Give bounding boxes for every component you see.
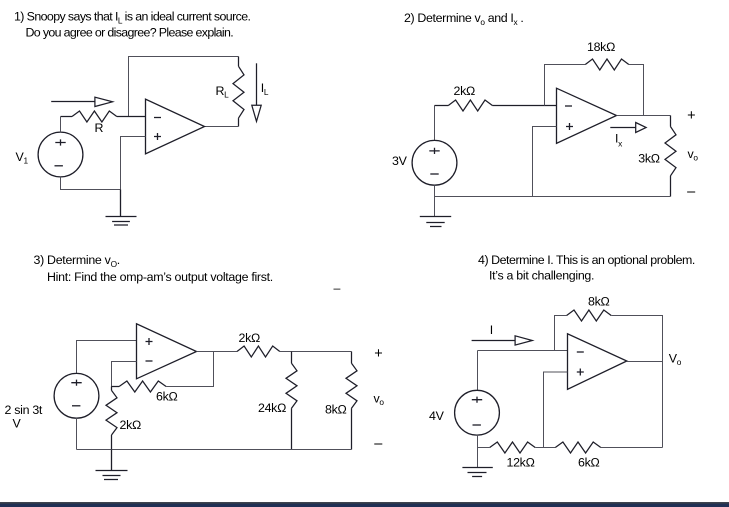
resistor R with leads xyxy=(61,111,146,122)
op-amp U3 plus input symbol xyxy=(146,338,153,345)
current arrow into R line xyxy=(51,101,95,103)
voltage source V1 xyxy=(38,132,83,177)
svg-text:4) Determine I. This is an opt: 4) Determine I. This is an optional prob… xyxy=(478,253,695,267)
current arrow Ix head xyxy=(636,123,646,133)
ground P4 xyxy=(462,468,492,477)
resistor 8k vertical xyxy=(346,352,357,450)
wire: P4 source bottom to ground xyxy=(477,435,479,468)
wire: P2 feedback right xyxy=(629,65,644,116)
wire: P4 input xyxy=(478,350,568,352)
svg-text:2) Determine vo and Ix .: 2) Determine vo and Ix . xyxy=(404,11,524,27)
svg-text:3kΩ: 3kΩ xyxy=(638,152,659,166)
svg-text:vo: vo xyxy=(374,392,385,408)
svg-text:3V: 3V xyxy=(392,154,408,168)
svg-text:+: + xyxy=(374,346,382,362)
resistor 6k P4 xyxy=(555,442,601,453)
wire: P4 rail right xyxy=(601,447,663,449)
op-amp U3 xyxy=(137,324,197,379)
wire: P2 plus input xyxy=(533,127,557,197)
source V1 plus sign xyxy=(55,139,65,145)
svg-text:6kΩ: 6kΩ xyxy=(156,390,177,404)
svg-text:+: + xyxy=(687,108,695,124)
svg-text:–: – xyxy=(374,436,383,452)
op-amp U2 minus input symbol xyxy=(565,105,572,107)
svg-text:RL: RL xyxy=(216,84,230,100)
svg-text:18kΩ: 18kΩ xyxy=(587,40,615,54)
svg-text:24kΩ: 24kΩ xyxy=(258,401,286,415)
wire: P2 bottom rail xyxy=(435,196,671,198)
current arrow IL head xyxy=(252,105,261,121)
resistor 2k P2 with leads xyxy=(435,100,557,111)
svg-text:2 sin 3t: 2 sin 3t xyxy=(5,403,43,417)
wire: V1 top to resistor R xyxy=(60,117,62,133)
svg-text:R: R xyxy=(95,121,104,135)
current arrow I line xyxy=(472,340,515,342)
svg-text:Do you agree or disagree? Plea: Do you agree or disagree? Please explain… xyxy=(26,26,234,40)
svg-text:2kΩ: 2kΩ xyxy=(454,84,475,98)
footer bar xyxy=(0,502,729,504)
svg-text:–: – xyxy=(334,281,341,295)
op-amp U1 minus input symbol xyxy=(154,117,161,119)
source 4V minus sign xyxy=(473,424,481,426)
resistor 2k horizontal P3 xyxy=(237,346,280,357)
svg-text:12kΩ: 12kΩ xyxy=(507,456,535,470)
op-amp U2 plus input symbol xyxy=(566,123,573,130)
voltage source 4V xyxy=(455,390,500,435)
svg-text:I: I xyxy=(490,323,493,337)
source 2sin3t minus sign xyxy=(72,405,80,407)
source 3V plus sign xyxy=(429,148,439,154)
source 2sin3t plus sign xyxy=(71,380,81,386)
op-amp U3 minus input symbol xyxy=(146,360,153,362)
ground P2 xyxy=(420,217,451,227)
resistor 2k vertical P3 xyxy=(106,387,117,450)
resistor 12k xyxy=(490,442,536,453)
resistor 8k P4 xyxy=(567,310,612,321)
op-amp U2 xyxy=(557,88,617,143)
op-amp U4 minus input symbol xyxy=(577,351,584,353)
svg-text:8kΩ: 8kΩ xyxy=(325,403,346,417)
source 4V plus sign xyxy=(472,397,482,403)
wire: P4 feedback top left xyxy=(555,316,567,351)
svg-text:Hint: Find the omp-am’s output: Hint: Find the omp-am’s output voltage f… xyxy=(47,270,273,284)
op-amp U4 xyxy=(568,334,627,390)
resistor 24k xyxy=(286,352,297,450)
wire: P4 output xyxy=(627,361,663,363)
current arrow into R head xyxy=(95,97,113,106)
wire: P1 plus input to ground node xyxy=(121,137,146,190)
op-amp U4 plus input symbol xyxy=(577,369,584,376)
svg-text:2kΩ: 2kΩ xyxy=(120,418,141,432)
wire: P3 output node to 8k top xyxy=(280,351,352,353)
resistor 3k with leads xyxy=(665,116,676,197)
svg-text:3) Determine vO.: 3) Determine vO. xyxy=(34,253,120,269)
wire: P3 source bottom xyxy=(76,418,78,450)
wire: P3 bottom rail xyxy=(77,449,352,451)
wire: V1 bottom rail xyxy=(61,177,121,190)
ground P1 xyxy=(106,190,137,226)
op-amp U1 xyxy=(146,99,205,154)
wire: P2 feedback left xyxy=(545,65,586,106)
svg-text:IL: IL xyxy=(261,81,269,97)
wire: P2 output xyxy=(617,115,671,117)
source 3V minus sign xyxy=(430,173,438,175)
wire: P1 op-amp output to RL bottom xyxy=(205,126,239,128)
svg-text:V: V xyxy=(13,417,22,431)
svg-text:vo: vo xyxy=(688,147,699,163)
svg-text:V1: V1 xyxy=(16,150,29,166)
wire: P1 feedback top xyxy=(129,57,239,117)
svg-text:Ix: Ix xyxy=(615,132,623,149)
resistor 18k xyxy=(585,59,629,70)
op-amp U1 plus input symbol xyxy=(154,133,161,140)
wire: P3 source top to plus input xyxy=(77,341,137,374)
wire: P4 rail middle xyxy=(535,447,555,449)
wire: P4 rail left lead xyxy=(478,447,490,449)
wire: P4 plus input xyxy=(544,372,568,448)
wire: P3 feedback right vertical xyxy=(166,352,213,387)
wire: P3 minus input down xyxy=(112,362,137,387)
current arrow Ix line xyxy=(610,127,635,129)
wire: P3 output xyxy=(197,351,238,353)
wire: 3V bottom to ground xyxy=(434,185,436,216)
svg-text:–: – xyxy=(687,184,696,200)
voltage source 2sin3t xyxy=(54,373,99,418)
resistor 6k with lead xyxy=(112,381,167,392)
svg-text:Vo: Vo xyxy=(669,352,682,368)
resistor RL xyxy=(233,57,244,127)
voltage source 3V xyxy=(412,140,457,185)
wire: P4 source top lead xyxy=(477,351,479,391)
current arrow IL line xyxy=(256,63,258,105)
svg-text:4V: 4V xyxy=(429,409,445,423)
current arrow I head xyxy=(515,336,532,345)
ground P3 xyxy=(96,450,128,480)
wire: 3V source top lead xyxy=(434,106,436,141)
svg-text:8kΩ: 8kΩ xyxy=(588,295,609,309)
source V1 minus sign xyxy=(55,165,63,167)
svg-text:6kΩ: 6kΩ xyxy=(578,456,599,470)
wire: P4 top right and right side xyxy=(611,316,662,448)
svg-text:2kΩ: 2kΩ xyxy=(239,331,260,345)
svg-text:1) Snoopy says that IL is an i: 1) Snoopy says that IL is an ideal curre… xyxy=(14,10,251,26)
svg-text:It’s a bit challenging.: It’s a bit challenging. xyxy=(489,269,594,283)
